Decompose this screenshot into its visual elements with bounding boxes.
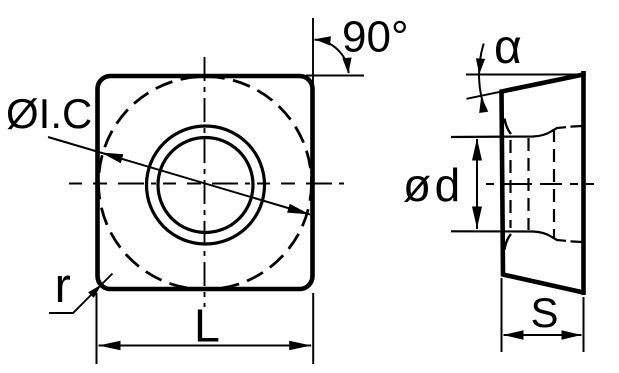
horizontal centerline (top view) <box>69 183 344 185</box>
od top silhouette hidden dash <box>571 125 583 128</box>
alpha arc arrowhead top <box>476 58 485 74</box>
svg-text:r: r <box>55 259 71 313</box>
S dimension line <box>504 334 582 336</box>
hidden hole line 3 (dashed) <box>553 129 555 239</box>
L extension line right <box>312 293 314 364</box>
svg-text:ØI.C: ØI.C <box>6 90 92 137</box>
L extension line left <box>96 293 98 364</box>
inscribed-circle diameter leader line <box>48 137 310 215</box>
svg-text:L: L <box>194 300 220 352</box>
I.C. diameter arrowhead lower-right <box>287 204 309 215</box>
L arrowhead left <box>99 341 121 351</box>
S arrowhead right <box>562 330 582 340</box>
od arrowhead top <box>472 139 482 161</box>
S extension line right <box>583 297 585 352</box>
center hole outer circle (countersink) <box>147 126 265 244</box>
side view outline: top edge, left edge, bottom edge <box>502 75 584 293</box>
hidden hole line 2 (dashed) <box>527 138 529 230</box>
countersink cone edge top <box>505 119 512 135</box>
side view horizontal centerline <box>486 183 599 185</box>
od bottom extension line merged with bottom silhouette <box>451 231 566 241</box>
od bottom silhouette hidden dash <box>571 240 583 243</box>
svg-text:α: α <box>494 21 522 74</box>
90-degree arc arrowhead bottom <box>342 58 351 74</box>
alpha slanted extension line <box>467 91 503 99</box>
inscribed circle (dashed) <box>99 77 312 290</box>
alpha arc arrowhead bottom <box>479 97 488 114</box>
countersink cone edge bottom <box>505 234 512 250</box>
corner radius leader line <box>49 274 113 314</box>
90-degree arc arrowhead left <box>315 36 331 45</box>
90-degree vertical extension line <box>312 18 314 88</box>
svg-text:ød: ød <box>403 159 464 211</box>
S arrowhead left <box>504 330 524 340</box>
L arrowhead right <box>289 341 311 351</box>
S extension line left <box>501 278 503 352</box>
od dimension line <box>476 139 478 229</box>
svg-text:S: S <box>531 289 559 336</box>
alpha angle arc <box>479 44 486 113</box>
od arrowhead bottom <box>472 207 482 229</box>
90-degree horizontal extension line <box>306 75 364 77</box>
I.C. diameter arrowhead upper-left <box>101 153 123 164</box>
svg-text:90°: 90° <box>342 13 409 62</box>
hidden hole line 1 (dashed) <box>509 140 511 228</box>
corner radius arrowhead <box>88 285 101 298</box>
alpha horizontal reference line <box>466 74 586 76</box>
L dimension line <box>99 345 312 347</box>
side view right edge (bottom face) <box>581 71 586 295</box>
center hole inner circle <box>158 138 253 233</box>
od top extension line merged with top silhouette <box>451 127 566 137</box>
vertical centerline (top view) <box>204 57 206 307</box>
insert body outline (top view, square with rounded corners) <box>98 76 313 289</box>
90-degree angle arc <box>315 40 349 73</box>
